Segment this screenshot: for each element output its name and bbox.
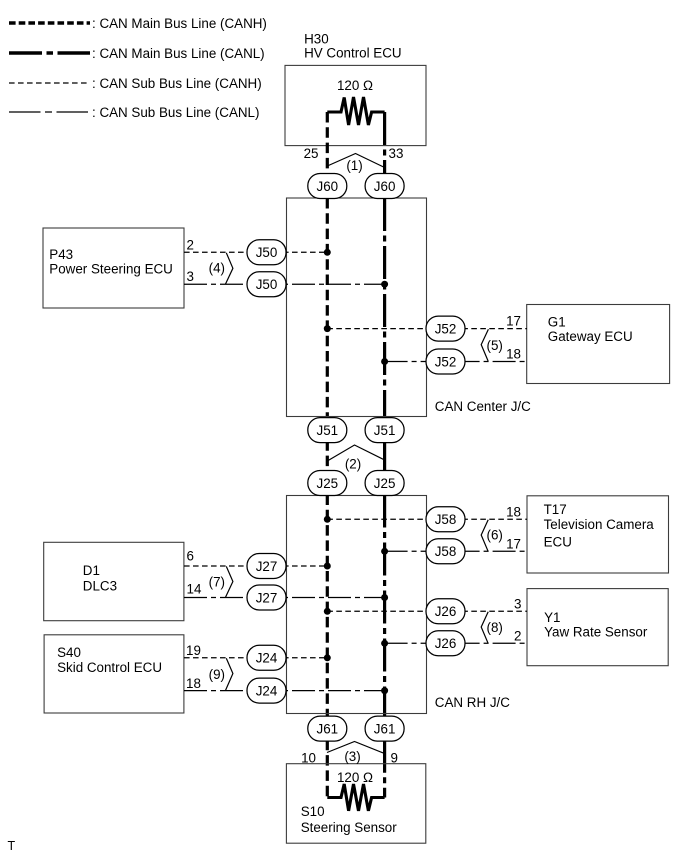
resistor 120 ohm (S10 terminating resistor) with value label [327, 770, 384, 811]
connector J50 (CANL, P43) [247, 272, 286, 297]
svg-text:33: 33 [389, 146, 404, 161]
svg-text:Yaw Rate Sensor: Yaw Rate Sensor [544, 625, 648, 640]
svg-text:Television Camera: Television Camera [544, 517, 655, 532]
legend line: CAN Sub Bus Line (CANL) [9, 105, 259, 120]
wire CANL main bus segment J60 to J51 (through CAN Center J/C) [383, 198, 386, 420]
connector J27 (CANH, D1) [247, 554, 286, 579]
node junction dot G1 CANH tap [324, 325, 331, 332]
svg-text:17: 17 [506, 314, 521, 329]
svg-text:P43: P43 [49, 247, 73, 262]
connector J26 (CANL, Y1) [426, 631, 465, 656]
junction box CAN Center J/C [287, 198, 532, 417]
wire CAN sub bus (CANL) CANL junction to J58 to T17 pin 17 [385, 550, 527, 552]
legend line: CAN Main Bus Line (CANL) [9, 46, 265, 61]
ECU H30 HV Control ECU box [285, 31, 426, 145]
marker (2) bus section indicator [327, 445, 384, 472]
ECU T17 Television Camera ECU box [527, 496, 669, 573]
connector J24 (CANL, S40) [247, 678, 286, 703]
connector J25 (CANL side) [365, 471, 404, 496]
svg-text:G1: G1 [548, 315, 566, 330]
connector J24 (CANH, S40) [247, 645, 286, 670]
marker (7) sub bus indicator at D1 [209, 566, 233, 597]
svg-text:: CAN Main Bus Line (CANL): : CAN Main Bus Line (CANL) [92, 46, 265, 61]
sensor S10 Steering Sensor box [286, 764, 425, 844]
svg-text:120 Ω: 120 Ω [337, 78, 373, 93]
svg-text:(9): (9) [209, 667, 225, 682]
svg-text:6: 6 [187, 549, 194, 564]
svg-text:(2): (2) [345, 457, 361, 472]
wire CAN sub bus (CANH) CANH junction to J26 to Y1 pin 3 [327, 610, 527, 612]
node junction dot D1 CANH tap [324, 563, 331, 570]
wire CANH main bus segment J51 to J25 [326, 440, 329, 472]
node junction dot G1 CANL tap [381, 358, 388, 365]
svg-text:17: 17 [506, 536, 521, 551]
svg-text:S40: S40 [57, 645, 81, 660]
node junction dot S40 CANH tap [324, 654, 331, 661]
svg-text:10: 10 [301, 751, 316, 766]
svg-text:19: 19 [186, 643, 201, 658]
wire CAN sub bus (CANL) D1 pin 14 to J27 to CANL junction [184, 597, 385, 599]
legend line: CAN Sub Bus Line (CANH) [9, 76, 262, 91]
svg-text:J58: J58 [435, 512, 457, 527]
wire CAN sub bus (CANL) CANL junction to J26 to Y1 pin 2 [385, 642, 527, 644]
svg-text:2: 2 [187, 237, 194, 252]
connector J25 (CANH side) [308, 471, 347, 496]
node junction dot T17 CANL tap [381, 548, 388, 555]
svg-text:CAN RH J/C: CAN RH J/C [435, 695, 510, 710]
resistor 120 ohm (H30 terminating resistor) with value label [327, 78, 384, 125]
svg-text:(4): (4) [209, 261, 225, 276]
connector J60 (CANH side) [308, 174, 347, 199]
wire CAN sub bus (CANH) CANH junction to J58 to T17 pin 18 [327, 518, 527, 520]
node junction dot Y1 CANL tap [381, 640, 388, 647]
connector J58 (CANH, T17) [426, 507, 465, 532]
svg-text:18: 18 [506, 347, 521, 362]
sensor Y1 Yaw Rate Sensor box [527, 589, 668, 666]
wire CANH main bus segment J61 to S10 box [326, 740, 329, 798]
svg-text:25: 25 [304, 146, 319, 161]
connector J52 (CANH, G1) [426, 316, 465, 341]
wire CAN sub bus (CANH) P43 pin 2 to J50 to CANH junction [184, 251, 327, 253]
node junction dot D1 CANL tap [381, 594, 388, 601]
svg-text:J26: J26 [435, 604, 457, 619]
connector J26 (CANH, Y1) [426, 599, 465, 624]
svg-text:J25: J25 [317, 476, 339, 491]
junction box CAN RH J/C [287, 496, 511, 714]
svg-text:J61: J61 [317, 721, 339, 736]
svg-text:J61: J61 [374, 721, 396, 736]
node junction dot Y1 CANH tap [324, 608, 331, 615]
node junction dot T17 CANH tap [324, 516, 331, 523]
ECU G1 Gateway ECU box [527, 305, 670, 384]
ECU S40 Skid Control ECU box [44, 635, 184, 713]
svg-text:: CAN Sub Bus Line (CANL): : CAN Sub Bus Line (CANL) [92, 105, 259, 120]
wire CANL main bus segment J61 to S10 box [383, 740, 386, 798]
marker (6) sub bus indicator at T17 [481, 520, 503, 552]
svg-text:J24: J24 [256, 683, 278, 698]
wire CAN sub bus (CANL) P43 pin 3 to J50 to CANL junction [184, 283, 385, 285]
svg-text:3: 3 [514, 596, 521, 611]
connector J50 (CANH, P43) [247, 240, 286, 265]
svg-text:CAN Center J/C: CAN Center J/C [435, 399, 531, 414]
ECU D1 DLC3 box [44, 542, 184, 620]
svg-text:Steering Sensor: Steering Sensor [301, 820, 398, 835]
svg-text:J24: J24 [256, 651, 278, 666]
svg-text:J52: J52 [435, 321, 457, 336]
svg-text:HV Control ECU: HV Control ECU [304, 45, 401, 60]
node junction dot S40 CANL tap [381, 687, 388, 694]
connector J60 (CANL side) [365, 174, 404, 199]
marker (4) sub bus indicator at P43 [209, 253, 233, 284]
wire CANL main bus segment J51 to J25 [383, 440, 386, 472]
wire CAN sub bus (CANH) S40 pin 19 to J24 to CANH junction [184, 657, 327, 659]
svg-text:(1): (1) [346, 158, 362, 173]
svg-text:Power Steering ECU: Power Steering ECU [49, 261, 173, 276]
svg-text:Skid Control ECU: Skid Control ECU [57, 660, 162, 675]
svg-text:ECU: ECU [544, 535, 572, 550]
svg-text:J27: J27 [256, 559, 278, 574]
svg-text:T17: T17 [544, 502, 567, 517]
wire CAN sub bus (CANH) D1 pin 6 to J27 to CANH junction [184, 565, 327, 567]
svg-text:D1: D1 [83, 563, 100, 578]
svg-text:Y1: Y1 [544, 610, 560, 625]
svg-text:J26: J26 [435, 636, 457, 651]
connector J58 (CANL, T17) [426, 539, 465, 564]
wire CANH main bus segment H30 box to J60 [326, 112, 329, 174]
marker (5) sub bus indicator at G1 [481, 329, 503, 361]
svg-text:J51: J51 [374, 423, 396, 438]
svg-text:J27: J27 [256, 590, 278, 605]
svg-text:J50: J50 [256, 277, 278, 292]
svg-text:J25: J25 [374, 476, 396, 491]
connector J51 (CANH side) [308, 418, 347, 443]
svg-text:(8): (8) [487, 620, 503, 635]
wire CANH main bus segment J25 to J61 (through CAN RH J/C) [326, 495, 329, 718]
svg-text:18: 18 [186, 676, 201, 691]
svg-text:J52: J52 [435, 354, 457, 369]
connector J27 (CANL, D1) [247, 585, 286, 610]
svg-text:(6): (6) [487, 528, 503, 543]
svg-text:(3): (3) [344, 749, 360, 764]
svg-text:J60: J60 [317, 179, 339, 194]
connector J61 (CANH side) [308, 716, 347, 741]
marker (9) sub bus indicator at S40 [209, 658, 233, 690]
svg-text:9: 9 [391, 751, 398, 766]
svg-text:14: 14 [187, 582, 202, 597]
wire CANL main bus segment H30 box to J60 [383, 112, 386, 174]
svg-text:T: T [8, 839, 16, 853]
svg-text:: CAN Sub Bus Line (CANH): : CAN Sub Bus Line (CANH) [92, 76, 262, 91]
svg-text:(5): (5) [487, 338, 503, 353]
svg-text:3: 3 [187, 269, 194, 284]
svg-text:J51: J51 [317, 423, 339, 438]
node junction dot P43 CANH tap [324, 249, 331, 256]
svg-text:Gateway ECU: Gateway ECU [548, 329, 633, 344]
node junction dot P43 CANL tap [381, 281, 388, 288]
marker (1) bus section indicator [327, 154, 384, 174]
wire CANL main bus segment J25 to J61 (through CAN RH J/C) [383, 495, 386, 718]
wire CANH main bus segment J60 to J51 (through CAN Center J/C) [326, 198, 329, 420]
svg-text:(7): (7) [209, 575, 225, 590]
svg-text:2: 2 [514, 628, 521, 643]
svg-text:18: 18 [506, 504, 521, 519]
wire CAN sub bus (CANL) CANL junction to J52 to G1 pin 18 [385, 361, 527, 363]
svg-text:: CAN Main Bus Line (CANH): : CAN Main Bus Line (CANH) [92, 16, 267, 31]
svg-text:DLC3: DLC3 [83, 578, 117, 593]
svg-text:J50: J50 [256, 245, 278, 260]
marker (3) bus section indicator [327, 742, 385, 765]
ECU P43 Power Steering ECU box [43, 228, 184, 308]
connector J52 (CANL, G1) [426, 349, 465, 374]
marker (8) sub bus indicator at Y1 [481, 612, 503, 644]
connector J61 (CANL side) [365, 716, 404, 741]
svg-text:120 Ω: 120 Ω [337, 770, 373, 785]
svg-text:H30: H30 [304, 31, 329, 46]
svg-text:J58: J58 [435, 544, 457, 559]
legend line: CAN Main Bus Line (CANH) [9, 16, 267, 31]
wire CAN sub bus (CANH) CANH junction to J52 to G1 pin 17 [327, 328, 527, 330]
wire CAN sub bus (CANL) S40 pin 18 to J24 to CANL junction [184, 690, 385, 692]
connector J51 (CANL side) [365, 418, 404, 443]
svg-text:S10: S10 [301, 804, 325, 819]
svg-text:J60: J60 [374, 179, 396, 194]
